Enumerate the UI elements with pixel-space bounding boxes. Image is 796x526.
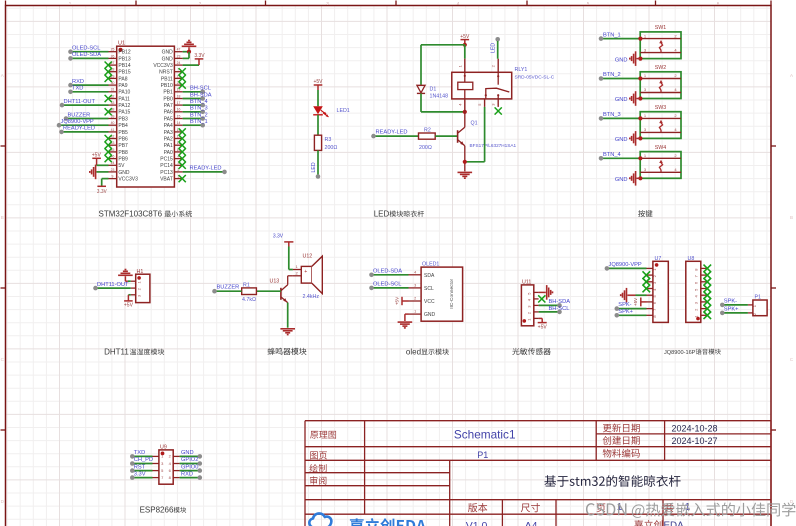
svg-text:P1: P1 [477, 450, 488, 460]
svg-text:OLED-SDA: OLED-SDA [72, 52, 101, 58]
svg-text:VCC: VCC [424, 299, 435, 305]
svg-text:BTN_1: BTN_1 [603, 32, 621, 38]
svg-text:VCC3V3: VCC3V3 [153, 63, 173, 69]
svg-text:41: 41 [111, 128, 115, 132]
svg-text:4.7kΩ: 4.7kΩ [242, 297, 256, 303]
svg-text:PA0: PA0 [164, 150, 173, 156]
svg-text:GPIO0: GPIO0 [181, 464, 198, 470]
svg-text:OLED-SCL: OLED-SCL [373, 281, 401, 287]
svg-text:BTN_4: BTN_4 [603, 152, 621, 158]
svg-text:LED: LED [491, 43, 497, 53]
svg-text:PA1: PA1 [164, 143, 173, 149]
svg-text:BH-SCL: BH-SCL [549, 306, 570, 312]
svg-text:BTN_1: BTN_1 [190, 119, 208, 125]
svg-text:9: 9 [112, 175, 114, 179]
svg-text:1N4148: 1N4148 [430, 94, 449, 100]
svg-text:GPIO2: GPIO2 [181, 457, 198, 463]
svg-text:+5V: +5V [538, 325, 548, 331]
svg-text:18: 18 [177, 94, 181, 98]
svg-text:U7: U7 [655, 256, 662, 262]
svg-text:2.4kHz: 2.4kHz [303, 294, 320, 300]
svg-text:PA6: PA6 [164, 110, 173, 116]
svg-text:PA7: PA7 [164, 103, 173, 109]
svg-text:SDA: SDA [424, 273, 435, 279]
svg-text:2024-10-28: 2024-10-28 [672, 423, 718, 433]
svg-text:READY-LED: READY-LED [376, 130, 408, 136]
svg-text:PA4: PA4 [164, 123, 173, 129]
svg-text:RXD: RXD [72, 79, 84, 85]
svg-text:RLY1: RLY1 [515, 67, 528, 73]
svg-text:LED: LED [311, 162, 317, 172]
svg-text:+5V: +5V [92, 153, 102, 159]
svg-text:R3: R3 [325, 137, 332, 143]
svg-text:14: 14 [177, 121, 181, 125]
svg-text:OLED-SDA: OLED-SDA [373, 268, 402, 274]
svg-text:READY-LED: READY-LED [190, 166, 222, 172]
svg-text:SW4: SW4 [655, 145, 667, 151]
svg-text:VBAT: VBAT [160, 177, 173, 183]
svg-text:200Ω: 200Ω [325, 145, 338, 151]
svg-text:PA12: PA12 [118, 103, 130, 109]
svg-text:OLED1: OLED1 [422, 262, 439, 268]
svg-text:+5V: +5V [633, 297, 638, 306]
svg-text:DHT11: DHT11 [104, 347, 129, 356]
svg-text:GND: GND [162, 50, 174, 56]
svg-text:BTN_2: BTN_2 [190, 112, 208, 118]
svg-text:B: B [1, 215, 4, 220]
svg-text:+5V: +5V [124, 302, 134, 308]
svg-text:IIC-Connector: IIC-Connector [449, 278, 455, 308]
svg-text:EDA: EDA [664, 520, 685, 526]
svg-text:A: A [790, 73, 793, 78]
svg-text:BTN_3: BTN_3 [603, 112, 621, 118]
svg-text:BH-SDA: BH-SDA [190, 92, 212, 98]
svg-text:GND: GND [615, 137, 628, 143]
svg-text:GND: GND [615, 177, 628, 183]
svg-text:PC15: PC15 [160, 157, 173, 163]
svg-text:2: 2 [414, 297, 416, 301]
svg-text:RST: RST [134, 464, 146, 470]
svg-text:PB10: PB10 [161, 83, 173, 89]
svg-text:PB8: PB8 [118, 150, 128, 156]
svg-text:BTN_3: BTN_3 [190, 106, 208, 112]
svg-text:SRD-05VDC-SL-C: SRD-05VDC-SL-C [515, 75, 555, 81]
svg-text:RXD: RXD [181, 471, 193, 477]
svg-text:PA5: PA5 [164, 116, 173, 122]
svg-text:26: 26 [111, 54, 115, 58]
svg-text:PB1: PB1 [163, 90, 173, 96]
svg-text:PA9: PA9 [118, 83, 127, 89]
svg-text:PA8: PA8 [118, 76, 127, 82]
svg-text:TXD: TXD [72, 86, 83, 92]
svg-text:Schematic1: Schematic1 [454, 428, 516, 442]
svg-text:R2: R2 [424, 127, 431, 133]
svg-text:GND: GND [162, 56, 174, 62]
svg-text:47: 47 [177, 48, 181, 52]
svg-text:PA11: PA11 [118, 96, 130, 102]
svg-text:BUZZER: BUZZER [217, 285, 240, 291]
svg-text:U13: U13 [270, 278, 280, 284]
svg-text:LED1: LED1 [337, 108, 350, 114]
svg-text:GND: GND [615, 57, 628, 63]
svg-text:+: + [304, 269, 307, 275]
svg-text:PB13: PB13 [118, 56, 130, 62]
svg-text:R1: R1 [243, 282, 250, 288]
svg-text:23: 23 [177, 54, 181, 58]
svg-text:BTN_4: BTN_4 [190, 99, 208, 105]
svg-text:+5V: +5V [395, 296, 400, 305]
svg-text:SW2: SW2 [655, 65, 667, 71]
svg-text:DHT11-OUT: DHT11-OUT [64, 99, 96, 105]
svg-text:PB11: PB11 [161, 76, 173, 82]
svg-text:ESP8266: ESP8266 [140, 505, 174, 514]
svg-text:PA3: PA3 [164, 130, 173, 136]
svg-text:2024-10-27: 2024-10-27 [672, 436, 718, 446]
svg-text:JQ8900-VPP: JQ8900-VPP [609, 262, 642, 268]
svg-text:PB3: PB3 [118, 116, 128, 122]
svg-text:PC14: PC14 [160, 163, 173, 169]
svg-text:4: 4 [414, 270, 416, 274]
svg-text:PC13: PC13 [160, 170, 173, 176]
svg-text:PA10: PA10 [118, 90, 130, 96]
svg-text:GND: GND [118, 170, 129, 176]
svg-text:BH-SDA: BH-SDA [549, 299, 571, 305]
svg-text:GND: GND [615, 97, 628, 103]
svg-text:U12: U12 [303, 254, 313, 260]
svg-text:SPK-: SPK- [724, 299, 737, 305]
svg-text:24: 24 [177, 61, 181, 65]
svg-text:1: 1 [685, 502, 691, 513]
svg-text:PB0: PB0 [163, 96, 173, 102]
svg-text:U1: U1 [118, 41, 125, 47]
svg-text:SPK+: SPK+ [618, 309, 633, 315]
svg-text:PA15: PA15 [118, 110, 130, 116]
svg-text:16: 16 [177, 108, 181, 112]
svg-text:B: B [790, 215, 793, 220]
svg-text:READY-LED: READY-LED [63, 126, 95, 132]
svg-text:TXD: TXD [134, 450, 145, 456]
svg-text:P1: P1 [755, 295, 762, 301]
svg-text:PB14: PB14 [118, 63, 130, 69]
svg-text:PB4: PB4 [118, 123, 128, 129]
svg-text:BFS17P/L6327H1SA1: BFS17P/L6327H1SA1 [470, 143, 517, 148]
svg-text:3.3V: 3.3V [194, 53, 205, 59]
svg-text:3: 3 [414, 284, 416, 288]
svg-text:5V: 5V [118, 163, 125, 169]
svg-text:STM32F103C8T6: STM32F103C8T6 [99, 209, 163, 218]
svg-text:200Ω: 200Ω [419, 145, 432, 151]
svg-text:LED: LED [374, 209, 390, 218]
svg-text:31: 31 [111, 88, 115, 92]
svg-text:40: 40 [111, 121, 115, 125]
svg-text:CH_PD: CH_PD [134, 457, 153, 463]
svg-text:PB9: PB9 [118, 157, 128, 163]
svg-text:U11: U11 [522, 279, 531, 285]
svg-text:3.3V: 3.3V [134, 471, 146, 477]
svg-text:A: A [1, 73, 4, 78]
svg-text:PB5: PB5 [118, 130, 128, 136]
svg-text:NRST: NRST [159, 70, 173, 76]
svg-text:SW1: SW1 [655, 25, 667, 31]
svg-text:BH-SCL: BH-SCL [190, 86, 211, 92]
svg-text:H1: H1 [137, 269, 144, 275]
svg-text:Q1: Q1 [471, 121, 478, 127]
svg-text:BTN_2: BTN_2 [603, 72, 621, 78]
svg-text:oled: oled [406, 347, 421, 356]
svg-text:U9: U9 [160, 444, 167, 450]
svg-text:15: 15 [177, 114, 181, 118]
svg-text:SW3: SW3 [655, 105, 667, 111]
svg-text:VCC3V3: VCC3V3 [118, 177, 138, 183]
svg-text:V1.0: V1.0 [466, 520, 488, 526]
svg-text:PB6: PB6 [118, 136, 128, 142]
svg-text:PB15: PB15 [118, 70, 130, 76]
svg-text:SCL: SCL [424, 286, 434, 292]
svg-text:DHT11-OUT: DHT11-OUT [97, 282, 129, 288]
svg-text:3.3V: 3.3V [273, 233, 284, 239]
svg-text:GND: GND [181, 450, 194, 456]
svg-text:A4: A4 [525, 520, 538, 526]
svg-text:PB7: PB7 [118, 143, 128, 149]
svg-text:JQ8900-VPP: JQ8900-VPP [61, 119, 94, 125]
svg-text:25: 25 [111, 48, 115, 52]
svg-text:PA2: PA2 [164, 136, 173, 142]
svg-text:23: 23 [111, 168, 115, 172]
svg-text:D1: D1 [430, 87, 437, 93]
svg-text:SPK-: SPK- [618, 302, 631, 308]
svg-text:17: 17 [177, 101, 181, 105]
svg-text:OLED-SCL: OLED-SCL [72, 46, 100, 52]
svg-text:U8: U8 [688, 256, 695, 262]
svg-text:PB12: PB12 [118, 50, 130, 56]
svg-text:SPK+: SPK+ [724, 307, 739, 313]
svg-text:GND: GND [424, 312, 436, 318]
svg-text:1: 1 [414, 310, 416, 314]
svg-text:BUZZER: BUZZER [68, 112, 91, 118]
svg-text:JQ8900-16P: JQ8900-16P [664, 350, 696, 356]
